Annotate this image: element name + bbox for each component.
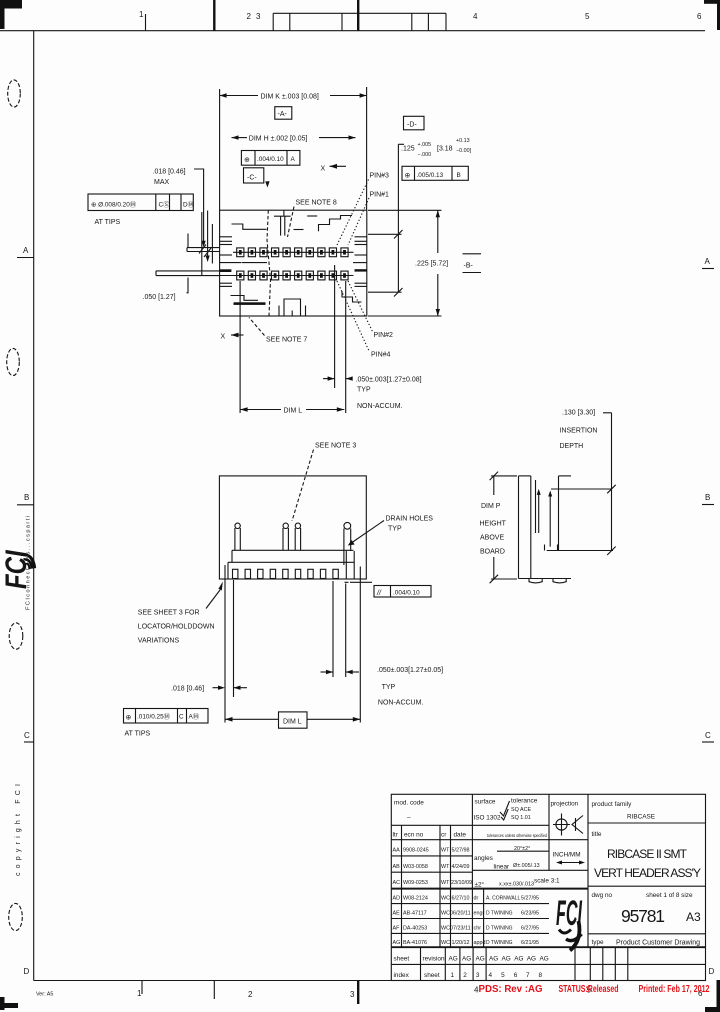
svg-text:revision: revision xyxy=(423,956,445,963)
approval rows xyxy=(474,896,540,947)
svg-text:VERT HEADER ASS'Y: VERT HEADER ASS'Y xyxy=(594,866,701,880)
svg-text:7: 7 xyxy=(526,972,530,979)
text: product family RIBCASE xyxy=(592,801,656,821)
svg-text:dwg no: dwg no xyxy=(592,892,613,899)
text: mod. code xyxy=(394,800,424,822)
leader: PIN#4 from row2 pin 9 xyxy=(337,281,370,352)
side view: drain channel xyxy=(345,551,347,579)
top view: pin row2 contacts xyxy=(239,273,346,278)
dim: leader from .018 MAX down to lead tip xyxy=(194,169,206,247)
position tolerance frame right xyxy=(402,166,468,180)
dim: .225 vertical dimension line with arrows xyxy=(436,210,440,316)
svg-text:CⓈ: CⓈ xyxy=(159,200,171,208)
bottom zone numbers xyxy=(137,986,703,1000)
revision table rows group 2 xyxy=(393,896,471,947)
svg-text:SQ 1.01: SQ 1.01 xyxy=(511,815,531,821)
svg-text:type: type xyxy=(592,939,605,946)
svg-text:RIBCASE: RIBCASE xyxy=(627,814,655,821)
leader: DRAIN HOLES arrow xyxy=(348,521,384,546)
datum B reference xyxy=(463,254,482,273)
svg-text:D TWINING: D TWINING xyxy=(486,940,513,946)
svg-text:MAX: MAX xyxy=(154,179,170,186)
detail: cavity bottom extension xyxy=(547,550,613,552)
extension line x212 through leads xyxy=(211,224,213,264)
svg-text:SQ ACE: SQ ACE xyxy=(511,807,531,813)
svg-text:DEPTH: DEPTH xyxy=(560,443,584,450)
dim: DIM K dimension line and arrows xyxy=(220,93,367,97)
svg-text:.050±.003[1.27±0.08]: .050±.003[1.27±0.08] xyxy=(356,377,422,384)
dim text: .018 [0.46] MAX top-left xyxy=(153,169,186,187)
text: surface / tolerance cell xyxy=(474,798,538,822)
svg-text:6: 6 xyxy=(697,12,702,21)
top view: top edge inner steps right xyxy=(319,216,353,232)
svg-text:sheet 1 of 8 size: sheet 1 of 8 size xyxy=(646,892,693,899)
punch hole 4 xyxy=(9,903,23,930)
svg-text:Ver: A5: Ver: A5 xyxy=(36,992,53,998)
svg-text:5/27/98: 5/27/98 xyxy=(452,848,470,854)
top zone thick tick at 358 xyxy=(357,0,359,31)
leader from position frame to leads xyxy=(206,211,210,263)
svg-text:+0.13: +0.13 xyxy=(456,138,470,144)
svg-text:B: B xyxy=(457,172,461,179)
top view: row1 centerline xyxy=(233,251,354,253)
revision table rows group 1 xyxy=(393,848,472,887)
svg-text:9908-0245: 9908-0245 xyxy=(403,848,429,854)
svg-text:AB-47117: AB-47117 xyxy=(403,911,427,917)
svg-text:−0.00]: −0.00] xyxy=(456,148,472,154)
label: SEE SHEET 3 FOR LOCATOR/HOLDDOWN VARIATIONS xyxy=(138,610,215,645)
top border line xyxy=(0,30,705,32)
side view: base rail xyxy=(228,550,354,562)
svg-text:DIM P: DIM P xyxy=(481,503,501,510)
corner mark top-right xyxy=(704,0,720,30)
extension line x202 through leads xyxy=(201,212,203,276)
svg-text:AT TIPS: AT TIPS xyxy=(95,219,121,226)
svg-text:AⓂ: AⓂ xyxy=(189,713,200,721)
svg-text:5: 5 xyxy=(585,12,590,21)
svg-text:PIN#2: PIN#2 xyxy=(374,332,394,339)
svg-text:6: 6 xyxy=(514,972,518,979)
svg-text:–: – xyxy=(407,814,411,821)
svg-text:AG: AG xyxy=(489,956,498,963)
left zone tick A xyxy=(17,257,34,259)
dim: insertion depth vertical line xyxy=(603,413,616,555)
punch hole 2 xyxy=(7,348,20,375)
extension line from body top right xyxy=(368,209,442,211)
svg-text:AG: AG xyxy=(540,956,549,963)
svg-text:SEE SHEET 3 FOR: SEE SHEET 3 FOR xyxy=(138,610,200,617)
top view: bottom edge inner steps right xyxy=(342,291,362,302)
svg-text:5: 5 xyxy=(501,972,505,979)
top view: right wall thick contact bar xyxy=(355,269,367,271)
svg-text:⊕: ⊕ xyxy=(244,157,250,164)
position tolerance frame bottom-left xyxy=(124,709,209,724)
svg-text:linear: linear xyxy=(494,864,511,871)
svg-text:tolerances unless otherwise sp: tolerances unless otherwise specified xyxy=(487,833,547,838)
svg-text:WT: WT xyxy=(441,864,450,870)
svg-text:AF: AF xyxy=(393,926,401,932)
dim: .050 pitch arrows top view xyxy=(323,376,353,380)
svg-text:1: 1 xyxy=(451,972,455,979)
svg-text:5/27/95: 5/27/95 xyxy=(521,896,539,902)
svg-text:1: 1 xyxy=(139,10,144,19)
svg-text:Printed: Feb 17, 2012: Printed: Feb 17, 2012 xyxy=(639,984,710,995)
svg-text:ISO 1302: ISO 1302 xyxy=(474,815,501,822)
svg-text:Product Customer Drawing: Product Customer Drawing xyxy=(616,940,700,947)
side view: hidden post 1 xyxy=(235,523,240,550)
svg-text:4: 4 xyxy=(489,972,493,979)
top view: pin row1 contacts xyxy=(239,250,346,255)
title block main vertical dividers xyxy=(472,794,588,947)
detail: top right cap xyxy=(559,475,572,477)
side view: drain hole post 4 xyxy=(344,522,351,565)
dim text: DIM L side view (boxed) xyxy=(279,712,308,728)
svg-text:-B-: -B- xyxy=(464,262,474,269)
text: dwg no / sheet 1 of 8 size xyxy=(592,892,693,899)
detail: cavity bottom U xyxy=(545,545,558,551)
svg-text:3: 3 xyxy=(256,12,261,21)
top view: pin row1 squares xyxy=(237,248,348,257)
svg-text:W09-0253: W09-0253 xyxy=(403,880,428,886)
top zone thick tick at 214 xyxy=(213,0,215,31)
svg-text:sheet: sheet xyxy=(394,956,410,963)
svg-text:±2°: ±2° xyxy=(475,881,485,889)
svg-text:DIM L: DIM L xyxy=(284,408,303,415)
svg-text:B: B xyxy=(24,493,29,502)
FCI logo in title block xyxy=(556,893,583,951)
left zone tick C xyxy=(24,741,34,743)
svg-text:⊕: ⊕ xyxy=(126,715,132,722)
svg-text:3: 3 xyxy=(476,972,480,979)
revision table column dividers xyxy=(402,825,484,947)
svg-text:appd: appd xyxy=(474,940,486,946)
svg-text:NON-ACCUM.: NON-ACCUM. xyxy=(357,403,403,410)
text: type Product Customer Drawing xyxy=(592,939,701,947)
side view: pitch extension line a xyxy=(332,581,334,677)
sheet revision row labels xyxy=(394,956,445,980)
svg-text:Ø±.005/.13: Ø±.005/.13 xyxy=(513,863,540,869)
left border line xyxy=(33,31,35,981)
text: DIM P HEIGHT ABOVE BOARD xyxy=(480,503,507,556)
svg-text:DIM K ±.003 [0.08]: DIM K ±.003 [0.08] xyxy=(261,94,319,101)
left margin FCI logo (rotated) xyxy=(0,549,34,589)
svg-text:.018 [0.46]: .018 [0.46] xyxy=(171,686,204,693)
datum box -C- xyxy=(244,168,270,188)
svg-text:.050 [1.27]: .050 [1.27] xyxy=(143,294,176,301)
top view: top edge small mark right xyxy=(307,215,317,217)
right zone tick B xyxy=(702,504,714,506)
header row: ltr ecn no cr date xyxy=(393,832,467,839)
sheet revision row dividers xyxy=(421,947,628,980)
svg-text:tolerance: tolerance xyxy=(511,798,538,805)
punch hole 1 xyxy=(8,80,21,107)
index sheet numbers xyxy=(451,972,543,979)
top view: section break dash line xyxy=(267,210,271,316)
svg-text:D TWINING: D TWINING xyxy=(486,926,513,932)
svg-text:AG: AG xyxy=(476,956,485,963)
punch hole 3 xyxy=(9,623,23,649)
svg-text:x.xx±.030/.013: x.xx±.030/.013 xyxy=(499,882,534,888)
dim: DIM L side view xyxy=(225,717,360,722)
view arrow X top-right xyxy=(321,164,347,173)
dim text: .125 +.005/-.000 [3.18 +0.13/-0.00] xyxy=(401,138,472,158)
svg-text:STATUS:Released: STATUS:Released xyxy=(559,984,619,995)
svg-text:06/20/11: 06/20/11 xyxy=(450,911,471,917)
dim: DIM K extension line left xyxy=(219,89,221,210)
svg-text:.125: .125 xyxy=(401,146,415,153)
svg-text:scale 3:1: scale 3:1 xyxy=(534,878,560,885)
svg-text:C: C xyxy=(705,731,711,740)
side view: hidden post 2 xyxy=(283,523,288,550)
svg-text:07/23/11: 07/23/11 xyxy=(450,926,471,932)
svg-text:WC: WC xyxy=(441,926,450,932)
svg-text:A. CORNWALL: A. CORNWALL xyxy=(486,896,520,902)
svg-text:sheet: sheet xyxy=(424,972,440,979)
svg-text:SEE NOTE 8: SEE NOTE 8 xyxy=(296,200,337,207)
svg-text:D: D xyxy=(709,967,715,976)
dim: .050 [1.27] bracket xyxy=(187,278,189,293)
svg-text:TYP: TYP xyxy=(382,684,396,691)
dim text: .050±.003[1.27±0.05] side view xyxy=(377,667,443,691)
position tolerance frame top-left xyxy=(88,194,195,211)
top view: left wall thick contact bar xyxy=(220,269,232,272)
top view: top edge inner steps left xyxy=(232,224,267,229)
detail: inner slot wall xyxy=(535,480,537,533)
svg-text:B: B xyxy=(705,493,710,502)
detail: mounting feet bumps xyxy=(529,579,566,583)
bottom zone ticks xyxy=(142,981,358,1005)
side view: right end block inner edge xyxy=(353,551,355,579)
leader: PIN#1 to row1 pin 10 xyxy=(348,198,369,245)
svg-text:TYP: TYP xyxy=(357,387,371,394)
dim: .125 vertical leader line xyxy=(394,144,404,296)
side view: hidden post 3 xyxy=(295,523,300,550)
top view: bottom edge inner steps left xyxy=(231,296,259,301)
svg-text:INCH/MM: INCH/MM xyxy=(553,852,581,859)
dim ticks on lead extension lines xyxy=(199,245,211,258)
detail: body bottom line xyxy=(519,578,572,580)
side view: SMT feet row xyxy=(233,569,339,578)
svg-text:95781: 95781 xyxy=(621,906,665,926)
svg-text:D: D xyxy=(24,967,30,976)
svg-text:6/27/10: 6/27/10 xyxy=(452,896,470,902)
detail: contact beams with up arrows xyxy=(537,489,553,547)
svg-text:projection: projection xyxy=(551,801,579,808)
svg-text:AA: AA xyxy=(393,848,401,854)
svg-text:2: 2 xyxy=(463,972,467,979)
svg-text:copyright FCI: copyright FCI xyxy=(15,784,22,876)
sheet revision values AG xyxy=(449,956,549,963)
svg-text:-A-: -A- xyxy=(278,111,288,118)
dim: DIM H dimension line and arrows xyxy=(232,135,356,139)
leader: PIN#3 to row1 pin 9 xyxy=(337,180,369,246)
left zone tick B xyxy=(17,504,34,506)
tolerance values: angles linear xyxy=(474,846,540,889)
text: INSERTION DEPTH xyxy=(560,428,598,451)
svg-text:4/24/09: 4/24/09 xyxy=(452,864,470,870)
svg-text:HEIGHT: HEIGHT xyxy=(480,521,507,528)
svg-text:[3.18: [3.18 xyxy=(437,146,453,153)
svg-text:AG: AG xyxy=(449,956,458,963)
dim: DIM P vertical line xyxy=(490,472,517,584)
side view: second left extension line xyxy=(233,580,235,697)
svg-text:.004/0.10: .004/0.10 xyxy=(257,156,284,163)
extension line row2 right xyxy=(368,291,402,293)
svg-text:product family: product family xyxy=(592,801,633,808)
svg-text:2: 2 xyxy=(248,990,253,999)
svg-text:AT TIPS: AT TIPS xyxy=(125,731,151,738)
svg-text:FCIconnect.Hss...csparti: FCIconnect.Hss...csparti xyxy=(26,516,32,610)
detail: right cavity wall xyxy=(558,476,560,551)
right zone tick A xyxy=(702,268,714,270)
svg-text:.004/0.10: .004/0.10 xyxy=(393,589,420,596)
svg-text:TYP: TYP xyxy=(388,526,402,533)
svg-text:6/23/95: 6/23/95 xyxy=(521,911,539,917)
svg-text:WT: WT xyxy=(441,880,450,886)
svg-text:A3: A3 xyxy=(686,910,701,924)
svg-text:−.000: −.000 xyxy=(418,152,432,158)
svg-text:ltr: ltr xyxy=(393,832,399,839)
text: projection cell xyxy=(551,801,584,836)
svg-text:8: 8 xyxy=(539,972,543,979)
svg-text:BA-41076: BA-41076 xyxy=(403,940,427,946)
side view: left lead tip extension line xyxy=(224,565,226,723)
flatness tolerance frame xyxy=(374,586,431,598)
extension line row1 right xyxy=(368,233,402,235)
top view: pin row2 squares xyxy=(237,271,348,280)
leader: SEE NOTE 3 to posts xyxy=(292,450,314,522)
svg-text:date: date xyxy=(454,832,467,839)
side view: pitch extension line b xyxy=(345,584,347,678)
svg-text:PIN#3: PIN#3 xyxy=(370,173,390,180)
svg-text:W03-0058: W03-0058 xyxy=(403,864,428,870)
svg-text:DA-40253: DA-40253 xyxy=(403,926,427,932)
corner mark bottom-right xyxy=(705,980,720,1012)
svg-text:AC: AC xyxy=(393,880,401,886)
svg-text:NON-ACCUM.: NON-ACCUM. xyxy=(378,700,424,707)
svg-text:ABOVE: ABOVE xyxy=(480,535,504,542)
detail: insertion depth reference line xyxy=(551,488,612,490)
svg-text:DIM L: DIM L xyxy=(283,718,302,725)
svg-text:cr: cr xyxy=(441,832,447,839)
side view: lead seating line right xyxy=(345,581,373,583)
svg-text:1/20/12: 1/20/12 xyxy=(452,940,470,946)
svg-text:-D-: -D- xyxy=(407,122,417,129)
svg-text:title: title xyxy=(592,831,602,838)
title block horizontal lines xyxy=(391,823,705,964)
svg-text:.225 [5.72]: .225 [5.72] xyxy=(415,261,448,268)
dim: .050 pitch arrows side view xyxy=(321,670,360,674)
svg-text:1: 1 xyxy=(137,989,142,998)
top view: right wall slot stubs xyxy=(353,237,367,287)
side view: right body extension line xyxy=(359,567,361,723)
top margin fold-cell strip xyxy=(273,13,446,30)
corner mark bottom-left xyxy=(0,997,18,1010)
top view: connector body outline xyxy=(220,210,367,316)
top view: row1 end lead lines left xyxy=(187,248,220,252)
svg-text:PDS: Rev :AG: PDS: Rev :AG xyxy=(479,984,543,995)
top view: top edge center notch xyxy=(274,210,304,235)
svg-text:WC: WC xyxy=(441,896,450,902)
top view: row2 centerline xyxy=(220,275,354,277)
svg-text:WC: WC xyxy=(441,940,450,946)
dim: .018 arrows side view xyxy=(213,686,248,690)
svg-text:4: 4 xyxy=(473,12,478,21)
leader: SEE SHEET arrow to feet xyxy=(206,582,223,609)
datum box -A- xyxy=(275,107,292,120)
svg-text:ecn no: ecn no xyxy=(404,832,424,839)
svg-text:AD: AD xyxy=(393,896,401,902)
top view: bottom edge thick bar left xyxy=(234,302,266,305)
svg-text:AB: AB xyxy=(393,864,401,870)
svg-text:VARIATIONS: VARIATIONS xyxy=(138,638,180,645)
top view: left wall slot stubs xyxy=(220,237,241,287)
svg-text:.005/0.13: .005/0.13 xyxy=(417,172,444,179)
svg-text:SEE NOTE 3: SEE NOTE 3 xyxy=(315,443,356,450)
leader: SEE NOTE 8 xyxy=(288,207,295,238)
svg-text:X: X xyxy=(221,334,226,341)
dim: DIM K extension line right xyxy=(366,87,368,210)
extension tick x188 on row1 lead xyxy=(187,234,189,249)
svg-text:DIM H ±.002 [0.05]: DIM H ±.002 [0.05] xyxy=(249,136,308,143)
svg-text:PIN#4: PIN#4 xyxy=(371,352,391,359)
svg-text:+.005: +.005 xyxy=(418,142,432,148)
dim text: .050±.003 [1.27±0.08] xyxy=(356,377,422,394)
svg-text:surface: surface xyxy=(475,799,496,806)
svg-text:dr: dr xyxy=(474,896,479,902)
svg-text:W08-2124: W08-2124 xyxy=(403,896,428,902)
svg-text:INSERTION: INSERTION xyxy=(560,428,598,435)
extension line pin10 down xyxy=(345,281,347,413)
extension line pin1 down xyxy=(239,281,241,413)
svg-text:engr: engr xyxy=(474,911,485,917)
svg-text:.050±.003[1.27±0.05]: .050±.003[1.27±0.05] xyxy=(377,667,443,674)
svg-text:A: A xyxy=(291,156,296,163)
corner mark top-left xyxy=(0,0,22,29)
svg-text:angles: angles xyxy=(474,855,493,862)
view arrow X bottom xyxy=(221,333,244,341)
extension line from body bottom right xyxy=(368,315,442,317)
detail: left wall of mated connector xyxy=(519,476,531,579)
svg-text:6/27/95: 6/27/95 xyxy=(521,926,539,932)
svg-text:⊕ Ø.008/0.20Ⓜ: ⊕ Ø.008/0.20Ⓜ xyxy=(91,200,137,208)
svg-text:AG: AG xyxy=(527,956,536,963)
leader: SEE NOTE 7 xyxy=(249,318,265,336)
svg-text:index: index xyxy=(394,972,410,979)
svg-text:DRAIN HOLES: DRAIN HOLES xyxy=(386,516,434,523)
right zone tick C xyxy=(702,741,714,743)
leader: PIN#2 from row2 pin 10 xyxy=(348,281,373,332)
svg-text:A: A xyxy=(23,246,29,255)
title block outer frame xyxy=(391,794,705,980)
top view: row2 end lead lines left xyxy=(156,271,220,276)
svg-text:D TWINING: D TWINING xyxy=(486,911,513,917)
svg-text:⊕: ⊕ xyxy=(405,172,411,179)
top view: mid line between rows xyxy=(242,262,268,264)
svg-text:6/21/95: 6/21/95 xyxy=(521,940,539,946)
label: DRAIN HOLES TYP xyxy=(386,516,434,533)
svg-text://: // xyxy=(376,590,382,597)
svg-text:mod. code: mod. code xyxy=(394,800,424,807)
svg-text:A: A xyxy=(705,257,711,266)
top zone numbers xyxy=(139,10,702,21)
svg-text:SEE NOTE 7: SEE NOTE 7 xyxy=(266,337,307,344)
position tolerance frame .004/0.10 A xyxy=(241,151,300,166)
svg-text:AG: AG xyxy=(462,956,471,963)
svg-text:chr: chr xyxy=(474,926,482,932)
dim: DIM L top view xyxy=(240,407,344,412)
svg-text:23/10/09: 23/10/09 xyxy=(451,880,472,886)
